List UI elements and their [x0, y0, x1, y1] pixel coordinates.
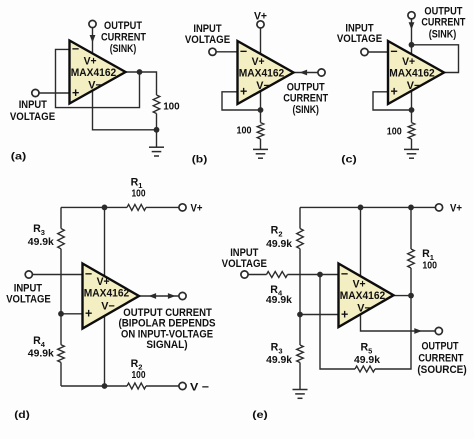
svg-text:MAX4162: MAX4162: [340, 290, 386, 302]
wire: feedback output to V+ node (c): [412, 45, 459, 73]
svg-text:OUTPUT: OUTPUT: [104, 20, 142, 32]
terminal: output current sink (c): [408, 12, 415, 19]
svg-text:−: −: [341, 267, 348, 281]
wire: divider tap to noninverting input (e): [300, 314, 339, 316]
svg-text:(SINK): (SINK): [292, 104, 319, 116]
svg-text:VOLTAGE: VOLTAGE: [222, 258, 268, 270]
terminal: V- (d): [179, 382, 186, 389]
junction: divider tap (d): [58, 311, 64, 317]
svg-text:VOLTAGE: VOLTAGE: [337, 33, 383, 45]
resistor R1 100 (e) zigzag: [408, 249, 415, 268]
junction: feedback tap on output (a): [137, 69, 143, 75]
svg-text:(a): (a): [11, 151, 27, 163]
resistor R4 49.9k (d) zigzag: [58, 345, 65, 363]
wire: sink terminal to V+ pin (c): [411, 19, 413, 57]
svg-text:MAX4162: MAX4162: [239, 67, 285, 79]
junction: V- / resistor bottom (a): [154, 127, 160, 133]
wire: V- pin to resistor bottom (a): [93, 86, 157, 130]
svg-text:V+: V+: [353, 278, 366, 290]
arrow: current into output (b): [300, 70, 308, 76]
label INPUT VOLTAGE (e): [222, 247, 268, 270]
junction: output node (e): [408, 293, 414, 299]
junction: inverting node feedback tap (e): [317, 272, 323, 278]
svg-text:V−: V−: [357, 303, 371, 315]
op-amp U1c MAX4162 triangle: [388, 41, 444, 104]
wire: output to resistor top (a): [126, 72, 157, 95]
svg-text:V −: V −: [190, 382, 210, 394]
ground (b): [253, 149, 268, 158]
wire: V- pin to source terminal (e): [361, 310, 436, 331]
arrow: bipolar current right (d): [168, 293, 176, 299]
junction: V- node (b): [258, 107, 264, 113]
label R2 49.9k (e): [266, 225, 292, 250]
junction: V+ rail / V+ pin (e): [358, 205, 364, 211]
svg-text:49.9k: 49.9k: [266, 355, 292, 366]
wire: inverting input (c): [368, 51, 388, 53]
svg-text:V+: V+: [254, 10, 267, 22]
svg-text:(SINK): (SINK): [110, 43, 137, 55]
svg-text:(c): (c): [341, 154, 357, 166]
op-amp U1d MAX4162 triangle: [83, 264, 140, 329]
resistor R3 49.9k (e) zigzag: [297, 345, 304, 363]
svg-text:−: −: [390, 44, 397, 58]
label INPUT VOLTAGE (a): [10, 99, 56, 123]
terminal: V+ supply (b): [257, 21, 264, 28]
svg-text:V+: V+: [97, 276, 110, 288]
svg-text:V−: V−: [101, 301, 115, 313]
terminal: V+ (e): [435, 204, 442, 211]
resistor R4 49.9k (e) zigzag: [267, 272, 288, 278]
svg-text:+: +: [85, 307, 92, 321]
svg-text:(d): (d): [14, 409, 30, 421]
resistor R2 49.9k (e) zigzag: [297, 229, 304, 249]
svg-text:V+: V+: [450, 203, 462, 215]
label OUTPUT CURRENT (SINK) (c): [421, 5, 465, 40]
junction: V- rail / V- pin (d): [102, 383, 108, 389]
svg-text:VOLTAGE: VOLTAGE: [10, 111, 56, 123]
label R5 49.9k (e): [354, 342, 380, 367]
svg-text:V+: V+: [252, 56, 265, 68]
wire: feedback output to inverting input (a): [56, 49, 140, 107]
svg-text:−: −: [85, 267, 92, 281]
wire: output to node (e): [394, 295, 412, 297]
wire: R3 to R4 through input crossing (d): [60, 249, 62, 345]
label OUTPUT CURRENT (SINK) (b): [283, 81, 328, 116]
resistor 100 (a) zigzag: [153, 95, 160, 114]
wire: resistor to ground (a): [156, 114, 158, 148]
svg-text:VOLTAGE: VOLTAGE: [185, 34, 231, 46]
svg-text:V+: V+: [402, 56, 415, 68]
svg-text:49.9k: 49.9k: [266, 239, 292, 250]
svg-text:+: +: [391, 85, 398, 99]
svg-text:V−: V−: [88, 80, 102, 92]
arrow: bipolar current left (d): [149, 293, 157, 299]
svg-text:49.9k: 49.9k: [266, 295, 292, 306]
wire: output to sink terminal (b): [294, 72, 318, 74]
svg-text:(BIPOLAR DEPENDS: (BIPOLAR DEPENDS: [119, 317, 216, 329]
wire: R3 to ground (e): [299, 363, 301, 390]
svg-text:V−: V−: [407, 80, 421, 92]
svg-text:VOLTAGE: VOLTAGE: [6, 294, 51, 306]
wire: R2 to R3 through input crossing (e): [299, 249, 301, 345]
junction: V+ rail / R1 (e): [408, 205, 414, 211]
svg-text:OUTPUT: OUTPUT: [287, 81, 325, 93]
wire: R4 to V- rail (d): [60, 362, 62, 386]
svg-text:100: 100: [163, 102, 180, 113]
svg-text:OUTPUT: OUTPUT: [422, 341, 459, 353]
wire: divider tap to noninverting input (d): [61, 313, 83, 315]
wire: R5 to output node (e): [375, 296, 411, 369]
svg-text:(SINK): (SINK): [429, 28, 457, 40]
wire: V+ pin (d): [104, 207, 106, 278]
terminal: input voltage (d): [25, 271, 32, 278]
junction: V+ rail / V+ pin (d): [102, 205, 108, 211]
wire: feedback from inverting node down to R5 (e): [320, 275, 355, 370]
svg-text:100: 100: [132, 188, 146, 199]
label INPUT VOLTAGE (c): [337, 23, 383, 45]
junction: V- node (c): [409, 107, 415, 113]
junction: divider tap (e): [297, 312, 303, 318]
label OUTPUT CURRENT (SOURCE) (e): [417, 341, 467, 376]
svg-text:(b): (b): [192, 154, 208, 166]
wire: noninverting feedback loop (b): [222, 92, 261, 110]
label OUTPUT CURRENT (SINK) (a): [101, 20, 146, 55]
arrow: current out of V- pin (e): [414, 328, 422, 334]
arrow: current into V+ node (c): [409, 22, 415, 29]
resistor R2 100 (d) zigzag: [127, 383, 146, 389]
arrow: current into V+ pin (a): [90, 35, 96, 43]
resistor 100 (c) zigzag: [408, 123, 415, 139]
label R1 100 (d): [131, 176, 146, 199]
svg-text:CURRENT: CURRENT: [421, 17, 465, 29]
wire: noninverting feedback loop (c): [373, 92, 412, 110]
wire: resistor to ground (b): [260, 139, 262, 149]
wire: V- pin (d): [104, 310, 106, 386]
wire: V+ rail (d): [61, 206, 127, 208]
label R2 100 (d): [131, 358, 146, 381]
svg-text:100: 100: [422, 260, 437, 271]
op-amp U1e MAX4162 triangle: [339, 264, 394, 328]
terminal: output current sink (a): [89, 20, 96, 27]
label R3 49.9k (e): [266, 342, 292, 367]
wire: R1 bottom to output node (e): [410, 268, 412, 296]
svg-text:100: 100: [237, 126, 252, 137]
svg-text:V+: V+: [191, 203, 203, 215]
svg-text:INPUT: INPUT: [19, 99, 47, 111]
svg-text:+: +: [240, 85, 247, 99]
label INPUT VOLTAGE (b): [185, 23, 231, 46]
svg-text:−: −: [240, 44, 247, 58]
svg-text:100: 100: [132, 370, 146, 381]
resistor R3 49.9k (d) zigzag: [58, 229, 65, 249]
svg-text:SIGNAL): SIGNAL): [146, 339, 188, 351]
svg-text:49.9k: 49.9k: [354, 355, 380, 366]
wire: output to terminal (d): [139, 295, 179, 297]
svg-text:+: +: [341, 307, 348, 321]
wire: resistor to ground (c): [411, 139, 413, 149]
svg-text:OUTPUT: OUTPUT: [424, 5, 462, 17]
svg-text:49.9k: 49.9k: [28, 348, 54, 359]
svg-text:100: 100: [387, 127, 402, 138]
wire: noninverting input (a): [39, 92, 70, 94]
svg-text:(e): (e): [252, 409, 268, 421]
wire: R4 to inverting input (e): [288, 274, 340, 276]
svg-text:MAX4162: MAX4162: [389, 67, 435, 79]
svg-text:V−: V−: [256, 80, 270, 92]
wire: V- pin to resistor (c): [411, 88, 413, 123]
svg-text:49.9k: 49.9k: [28, 237, 54, 248]
svg-text:CURRENT: CURRENT: [418, 353, 463, 365]
terminal: input voltage (a): [32, 89, 39, 96]
wire: input terminal to R4 (e): [248, 274, 266, 276]
terminal: V+ (d): [179, 204, 186, 211]
wire: V- rail (d): [61, 385, 127, 387]
svg-text:−: −: [72, 42, 79, 56]
wire: inverting input (b): [216, 51, 238, 53]
svg-text:(SOURCE): (SOURCE): [417, 364, 467, 376]
wire: left divider vertical (d): [60, 207, 62, 228]
wire: V+ rail to V+ pin (b): [260, 28, 262, 57]
resistor R5 49.9k (e) zigzag: [355, 366, 375, 372]
junction: V+ node feedback tap (c): [409, 42, 415, 48]
terminal: input voltage (b): [209, 48, 216, 55]
wire: input voltage to inverting input (d): [32, 274, 83, 276]
terminal: input voltage (e): [241, 271, 248, 278]
svg-text:MAX4162: MAX4162: [71, 67, 117, 79]
op-amp U1a MAX4162 triangle: [70, 41, 126, 104]
ground (e): [293, 390, 308, 399]
svg-text:MAX4162: MAX4162: [84, 288, 130, 300]
resistor R1 100 (d) zigzag: [127, 204, 146, 210]
label INPUT VOLTAGE (d): [6, 283, 51, 306]
label R4 49.9k (d): [28, 335, 54, 359]
label R3 49.9k (d): [28, 223, 54, 248]
terminal: output current sink (b): [318, 69, 325, 76]
label R1 100 (e): [422, 248, 437, 271]
svg-text:CURRENT: CURRENT: [283, 93, 328, 105]
svg-text:V+: V+: [84, 55, 97, 67]
terminal: output current source (e): [435, 327, 442, 334]
label R4 49.9k (e): [266, 284, 292, 306]
op-amp U1b MAX4162 triangle: [238, 41, 294, 104]
wire: V- pin to resistor (b): [260, 88, 262, 123]
ground (a): [149, 147, 164, 156]
resistor 100 (b) zigzag: [257, 123, 264, 139]
svg-text:+: +: [72, 86, 79, 100]
svg-text:CURRENT: CURRENT: [101, 32, 146, 44]
label OUTPUT CURRENT (BIPOLAR...) (d): [119, 307, 216, 351]
wire: R1 top (e): [410, 207, 412, 249]
wire: V+ pin to sink terminal (a): [92, 28, 94, 57]
terminal: output current (d): [179, 292, 186, 299]
terminal: input voltage (c): [361, 48, 368, 55]
wire: V+ pin (e): [360, 207, 362, 278]
ground (c): [404, 149, 419, 158]
wire: rail to R2 (e): [299, 207, 301, 228]
wire: V+ rail (e): [300, 206, 435, 208]
